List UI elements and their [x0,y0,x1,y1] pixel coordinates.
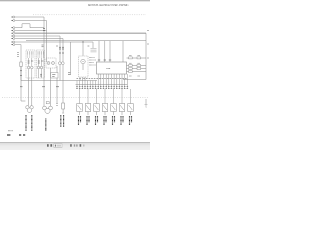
vertical label R1 [60,115,62,127]
wire net1 [15,17,44,62]
fuse row wire 4 [127,71,147,73]
connector P2 pin 5 [13,38,15,40]
connector box C3 [51,73,58,79]
fuse F1 label [17,53,19,57]
connector P1 pin 2 [13,20,15,22]
component R1 [62,103,65,109]
control unit A1 label [107,67,111,69]
relay K1 dashed box [26,50,35,78]
relay K1 wire labels [28,51,33,58]
control unit left pin stubs [91,48,97,52]
pin label 9 [11,44,13,46]
load box L6 [119,104,125,116]
bus band wire [15,32,146,34]
fuse F1 [20,62,22,67]
fuse F5 [137,65,141,67]
load box L5 [111,104,117,116]
relay K2 contact stubs [39,58,42,78]
wire comp feed [62,41,64,103]
ignition switch position labels [89,58,96,66]
footer text [7,134,25,136]
component R1 tail [62,109,64,113]
control unit pin labels top [98,59,111,61]
vertical label L7b [131,116,133,123]
fuse F3 [137,57,141,59]
vertical label L4 [103,116,105,126]
fuse row wire 3 [127,68,147,70]
wire right bus vertical [145,33,147,79]
connector P2 pin 1 [13,27,15,29]
relay K2 terminal labels [38,61,44,63]
vertical label M1 [25,115,27,131]
ignition switch S1 [81,59,85,63]
relay K2 dashed box [37,50,45,78]
comb of ECU output wires [77,74,131,104]
vertical label L1 [78,116,80,126]
toolbar background [0,142,150,150]
wire ecu feed 4 [122,41,124,62]
relay K3 contact b [52,62,55,65]
relay K4 contact a [58,62,61,65]
toolbar separator [70,144,72,147]
toolbar icon page up [47,144,49,147]
wire sensor feed [56,66,58,103]
relay K2 contact a [37,66,40,69]
vertical label L1b [80,116,82,123]
pin label 7 [11,38,13,40]
fuse F1 ticks [20,71,22,76]
vertical label L7 [129,116,131,126]
wire net8 [15,41,93,43]
vertical label M1 [26,115,132,131]
connector label C4 [40,74,42,76]
wire relay A out 1 [28,78,30,106]
fuse F2 [129,57,133,59]
relay K1 terminal labels [28,61,34,63]
connector P2 pin 2 [13,30,15,32]
vertical label R1b [63,115,65,127]
connector marks C5 [20,29,64,87]
toolbar extra faint icon [83,145,84,147]
relay K2 wire labels [38,51,43,58]
connector label C5a [42,45,44,47]
connector C6 [46,102,49,104]
control unit left pin label [88,45,90,47]
relay K3 dashed box [46,58,56,68]
vertical label L2 [86,116,88,126]
load box L4 [102,104,108,116]
wire net4 [15,30,47,32]
dotted reference line bottom [2,97,148,99]
connector P3 pin 1 [13,41,15,43]
comb pin number labels [76,78,128,88]
pin label 5 [11,32,13,34]
vertical label L5 [112,116,114,126]
right bus labels [147,31,149,59]
vertical label M1b [31,115,33,131]
load box L7 [128,104,134,116]
load box L3 [94,104,100,116]
vertical label L5b [114,116,116,123]
connector P2 pin 4 [13,35,15,37]
wire net9 [15,45,26,101]
relay K1 contact stubs [29,58,32,78]
pin label 8 [11,41,13,43]
wire ground return [123,79,146,81]
pin label 1 [11,16,13,18]
fuse row wire 2 [127,65,147,67]
wire net8 drop [70,42,72,75]
pin label 3 [11,27,13,29]
toolbar zoom level [76,144,77,146]
toolbar zoom out [74,144,75,146]
fuse F8 [129,71,133,73]
wire ecu feed 3 [109,41,111,62]
motor M2 [43,106,53,113]
relay K1 contact b [31,66,34,69]
wire motor2 feed 1 [43,62,45,106]
vertical label L3b [97,116,99,123]
vertical label L4b [105,116,107,123]
connector P3 pin 2 [13,44,15,46]
junction ign [82,41,83,42]
pin label 6 [11,35,13,37]
window top edge [0,0,150,2]
vertical label L2b [88,116,90,123]
connector box C3 label [52,75,55,77]
relay K1 contact a [27,66,30,69]
vertical label L3 [95,116,97,126]
load box L1 [77,104,83,116]
connector P1 pin 1 [13,16,15,18]
wire net2 [15,21,47,63]
wire bus lower [21,80,97,82]
connector label C2 [68,73,70,75]
note mark [8,130,13,132]
fuse row wire 1 [127,57,147,59]
toolbar zoom in [80,144,82,147]
wire ign feed [82,41,84,56]
wire net5 [15,36,60,81]
sensor B1 [56,104,58,106]
relay K4 contact b [61,62,64,65]
wire fuse drop [20,67,22,81]
relay K2 contact b [40,66,43,69]
wire ign down [80,64,85,81]
svg-text:SECTION 55 - ELECTRICAL SYSTEM: SECTION 55 - ELECTRICAL SYSTEM - CHAPTER… [88,3,129,7]
control unit A1 [97,62,127,74]
load box L2 [85,104,91,116]
connector P2 pin 3 [13,32,15,34]
wire comb header [76,84,128,86]
vertical label L6 [120,116,122,126]
toolbar icon page down [50,144,52,147]
fuse F6 [129,68,133,70]
ground symbol right [145,99,148,108]
wire ecu feed 2 [104,41,106,62]
wire net7 long [26,40,146,42]
toolbar page input [54,144,62,148]
wire motor2 feed 2 [50,68,52,106]
vertical label L6b [122,116,124,123]
relay K3 contact a [47,62,50,65]
fuse F4 [129,65,133,67]
pin label 2 [11,20,13,22]
wire ecu feed 1 [98,41,100,62]
dotted reference line top [33,14,146,16]
motor M1 [26,106,34,113]
ignition switch S1 box [79,56,89,77]
pin label 4 [11,30,13,32]
fuse value labels [129,56,140,76]
fuse F7 [137,68,141,70]
wire relay A out 2 [31,78,33,106]
wire block left feed [92,42,94,48]
vertical label M2 [45,119,47,132]
wire net3 jog [15,24,44,28]
wire net6 [15,39,63,42]
